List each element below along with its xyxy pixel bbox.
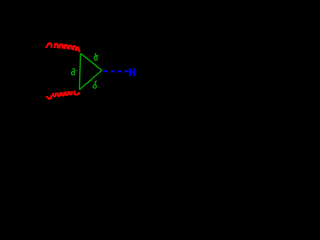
triangle edge A-C (top partial bond) [81,53,102,70]
triangle edge B-C (bottom partial bond) [79,70,102,89]
triangle edge A-B (left partial bond) [79,53,80,89]
label delta (left edge) [71,69,77,75]
label delta (bottom edge) [93,81,97,88]
short parallel stroke on bottom edge [87,80,91,83]
atom H [129,68,136,75]
squiggly bond (red coil, lower left) [46,90,79,99]
hydrogen bond (blue dashed line) [104,70,129,72]
label delta (top edge) [94,53,98,60]
squiggly bond (red coil, upper left) [46,43,80,52]
